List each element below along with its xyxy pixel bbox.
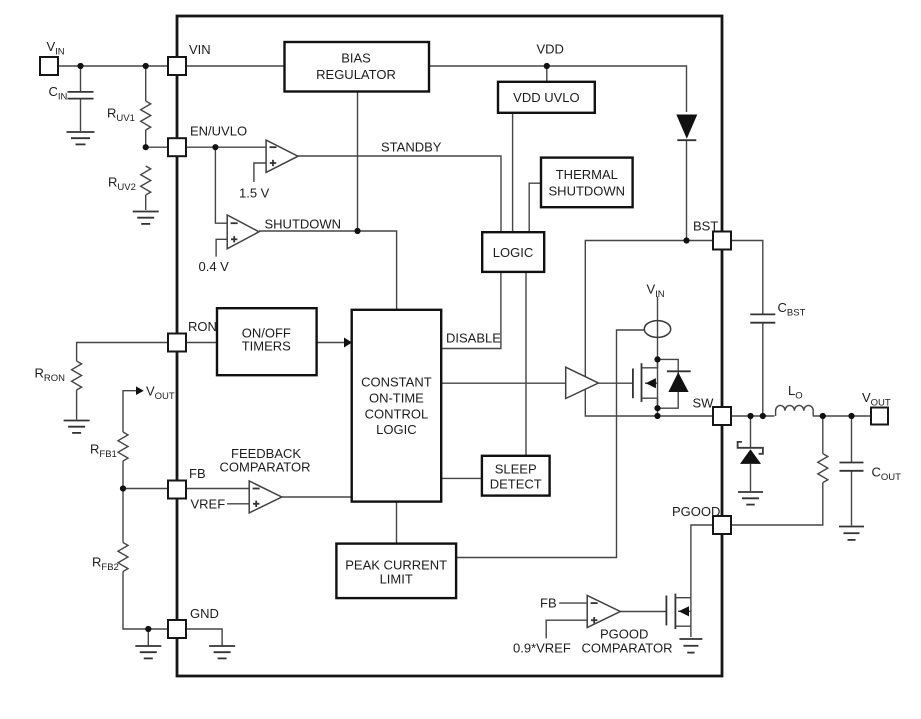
wire PGOOD pin to PGOOD FET drain — [691, 525, 713, 637]
svg-text:ON-TIME: ON-TIME — [369, 391, 424, 406]
wire RUV2 lower lead — [145, 195, 147, 210]
wire CBST to SW node — [762, 323, 764, 416]
transistor Q1 high-side NFET — [632, 369, 634, 399]
wire FB node to FB pin — [123, 488, 168, 490]
wire SW pin to inductor — [731, 415, 774, 417]
svg-text:FB: FB — [540, 596, 557, 611]
terminal VIN source — [40, 57, 58, 75]
node VIN junction at RUV1 — [143, 63, 149, 69]
pin VIN — [168, 57, 186, 75]
svg-text:TIMERS: TIMERS — [242, 339, 291, 354]
wire CIN lower lead — [80, 99, 82, 131]
ground below CIN — [67, 131, 95, 133]
node SW at CBST — [760, 413, 766, 419]
svg-text:SHUTDOWN: SHUTDOWN — [265, 217, 342, 232]
box PEAK CURRENT LIMIT — [336, 544, 456, 599]
node FB divider junction — [120, 485, 126, 491]
wire diode cathode down to BST rail — [686, 141, 688, 241]
box BIAS REGULATOR — [285, 42, 430, 92]
wire VREF to feedback comparator plus — [227, 503, 249, 505]
svg-text:CONTROL: CONTROL — [365, 407, 429, 422]
diode D2 body diode of Q1 — [658, 359, 679, 408]
node EN internal junction — [212, 144, 218, 150]
wire COT logic to PEAK CURRENT LIMIT — [396, 502, 398, 544]
ground below RRON — [64, 420, 90, 422]
wire VIN terminal to VIN pin — [58, 65, 168, 67]
svg-text:RON: RON — [188, 319, 217, 334]
wire COT logic to gate driver — [441, 382, 566, 384]
svg-text:BIAS: BIAS — [341, 51, 371, 66]
wire FB to PGOOD comparator minus — [559, 602, 587, 604]
wire schottky anode stem — [750, 416, 752, 447]
wire feedback comparator output to COT logic — [282, 496, 352, 498]
svg-text:1.5 V: 1.5 V — [239, 186, 270, 201]
wire EN node to EN/UVLO pin — [146, 146, 168, 148]
pin RON — [168, 334, 186, 352]
svg-text:EN/UVLO: EN/UVLO — [190, 124, 247, 139]
wire DISABLE net — [441, 272, 501, 349]
wire BIAS REGULATOR to SHUTDOWN junction — [357, 92, 359, 232]
svg-text:GND: GND — [190, 606, 219, 621]
wire PGOOD comparator output to PGOOD FET gate — [620, 611, 666, 613]
wire VDD UVLO to LOGIC — [512, 113, 514, 232]
box LOGIC — [482, 232, 544, 272]
op-amp U3 feedback comparator — [249, 481, 282, 513]
wire RON pin to ON/OFF TIMERS — [186, 342, 217, 344]
ground below COUT — [839, 526, 864, 528]
arrow VOUT sense — [136, 386, 144, 395]
svg-text:VDD UVLO: VDD UVLO — [513, 90, 579, 105]
wire 0.9*VREF to PGOOD comparator plus — [546, 620, 587, 638]
terminal VOUT — [871, 408, 888, 425]
box THERMAL SHUTDOWN — [541, 158, 633, 208]
svg-text:FB: FB — [189, 466, 206, 481]
svg-text:VDD: VDD — [537, 42, 564, 57]
wire PGOOD pull-up upper lead — [822, 416, 824, 454]
wire GND pin to internal ground — [186, 629, 222, 646]
node GND junction — [145, 626, 151, 632]
svg-text:VIN: VIN — [189, 42, 211, 57]
wire SHUTDOWN net — [259, 231, 397, 310]
wire COT logic to SLEEP DETECT — [441, 477, 482, 479]
svg-text:VREF: VREF — [191, 497, 226, 512]
inductor LO — [776, 405, 814, 416]
wire LOGIC to SLEEP DETECT — [525, 272, 527, 456]
resistor RFB2 — [118, 543, 128, 572]
ground at GND node — [135, 645, 161, 647]
svg-text:DISABLE: DISABLE — [446, 331, 501, 346]
node SW at Q1 — [654, 413, 660, 419]
node VDD junction — [544, 63, 550, 69]
wire BST rail from BST pin to SW pin — [585, 241, 713, 417]
wire 1.5V reference to U1 plus — [254, 163, 266, 182]
op-amp U1 standby comparator — [266, 140, 298, 172]
pin SW — [713, 407, 731, 425]
wire RON pin to RRON — [77, 343, 168, 362]
svg-text:PGOOD: PGOOD — [600, 627, 648, 642]
svg-text:LOGIC: LOGIC — [376, 422, 416, 437]
box SLEEP DETECT — [482, 456, 550, 496]
svg-text:SW: SW — [693, 396, 715, 411]
svg-text:0.9*VREF: 0.9*VREF — [513, 641, 571, 656]
node Q1 drain — [654, 356, 660, 362]
op-amp U2 shutdown comparator — [227, 215, 259, 249]
svg-text:PEAK CURRENT: PEAK CURRENT — [345, 558, 447, 573]
wire FB pin to feedback comparator minus — [186, 488, 249, 490]
node VOUT at pull-up — [820, 413, 826, 419]
box ON/OFF TIMERS — [217, 308, 317, 375]
wire VIN to current source and high-side FET drain — [657, 297, 659, 360]
wire EN node to comparator U2 minus — [215, 147, 227, 223]
pin PGOOD — [713, 516, 731, 534]
svg-text:LOGIC: LOGIC — [493, 245, 533, 260]
pin FB — [168, 481, 186, 499]
node SHUTDOWN junction — [354, 228, 360, 234]
node VOUT at COUT — [848, 413, 854, 419]
svg-text:PGOOD: PGOOD — [672, 504, 720, 519]
wire inductor to VOUT terminal — [813, 415, 871, 417]
wire peak current limit to current sense tap — [456, 330, 644, 558]
wire CIN upper lead — [80, 66, 82, 92]
wire RUV divider column — [145, 66, 147, 101]
ground inside GND pin — [209, 645, 235, 647]
svg-text:BST: BST — [693, 219, 718, 234]
ground below RUV2 — [133, 211, 159, 213]
svg-text:LIMIT: LIMIT — [380, 572, 413, 587]
wire RRON to ground — [76, 390, 78, 420]
gate driver buffer — [566, 367, 599, 398]
node VIN junction at CIN — [77, 63, 83, 69]
wire schottky to ground — [750, 464, 752, 491]
svg-text:DETECT: DETECT — [490, 477, 542, 492]
svg-text:THERMAL: THERMAL — [556, 167, 618, 182]
node Q1 source — [654, 405, 660, 411]
wire RFB2 upper lead — [122, 489, 124, 543]
resistor RUV2 — [141, 166, 151, 195]
wire COUT to ground — [851, 471, 853, 526]
diode D3 catch schottky — [738, 442, 763, 454]
svg-text:SLEEP: SLEEP — [495, 462, 537, 477]
pin GND — [168, 620, 186, 638]
capacitor CIN — [68, 91, 94, 93]
pin BST — [713, 232, 731, 250]
resistor RPG pull-up — [818, 454, 828, 483]
resistor RFB1 — [118, 432, 128, 461]
ground below Q2 — [679, 638, 702, 640]
svg-text:SHUTDOWN: SHUTDOWN — [549, 184, 626, 199]
svg-text:REGULATOR: REGULATOR — [316, 67, 396, 82]
wire COUT upper lead — [851, 416, 853, 462]
svg-text:COMPARATOR: COMPARATOR — [220, 460, 311, 475]
node EN divider junction — [143, 144, 149, 150]
capacitor COUT — [840, 462, 864, 464]
wire VIN pin to BIAS REGULATOR — [186, 65, 285, 67]
svg-text:COMPARATOR: COMPARATOR — [582, 641, 673, 656]
svg-text:CONSTANT: CONSTANT — [361, 375, 432, 390]
arrow ON/OFF TIMERS to COT — [344, 338, 352, 348]
capacitor CBST — [750, 313, 775, 315]
wire RUV1 to EN node — [145, 130, 147, 147]
diode D1 BST charge diode — [676, 115, 697, 139]
wire ON/OFF TIMERS output arrow line — [317, 342, 345, 344]
transistor Q2 PGOOD open-drain FET — [665, 596, 667, 626]
pin EN/UVLO — [168, 138, 186, 156]
current source I1 — [644, 321, 670, 338]
IC boundary box — [177, 16, 722, 676]
wire driver output to gate — [598, 382, 633, 384]
wire VOUT sense arrow — [123, 391, 137, 432]
svg-text:STANDBY: STANDBY — [381, 140, 442, 155]
wire THERMAL SHUTDOWN to LOGIC — [529, 183, 541, 232]
wire VDD dot to VDD UVLO — [546, 66, 548, 82]
node SW at schottky — [747, 413, 753, 419]
resistor RUV1 — [141, 101, 151, 130]
op-amp U4 PGOOD comparator — [587, 596, 620, 628]
box CONSTANT ON-TIME CONTROL LOGIC — [352, 310, 442, 502]
wire STANDBY net — [298, 156, 501, 232]
wire VDD net: BIAS REGULATOR to diode column — [429, 66, 687, 112]
wire RFB2 to GND node — [123, 572, 168, 630]
node BST diode junction — [683, 237, 689, 243]
wire PGOOD pull-up to PGOOD pin — [731, 483, 823, 525]
svg-text:0.4 V: 0.4 V — [199, 259, 230, 274]
ground below D3 — [738, 491, 763, 493]
wire 0.4V reference to U2 plus — [216, 239, 227, 256]
box VDD UVLO — [498, 82, 595, 113]
wire EN/UVLO pin to comparator U1 minus — [186, 146, 266, 148]
resistor RRON — [72, 361, 82, 390]
wire GND node ground stem — [147, 629, 149, 646]
wire BST pin to CBST — [731, 241, 763, 315]
wire RFB1 to FB node — [122, 461, 124, 489]
